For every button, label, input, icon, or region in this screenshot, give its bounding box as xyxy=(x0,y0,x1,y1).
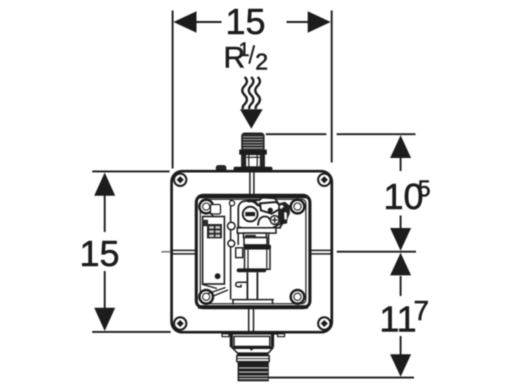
svg-text:7: 7 xyxy=(414,295,430,326)
svg-text:15: 15 xyxy=(225,1,265,42)
svg-text:15: 15 xyxy=(79,233,119,274)
svg-text:11: 11 xyxy=(379,299,416,340)
svg-text:2: 2 xyxy=(255,49,268,75)
svg-text:1: 1 xyxy=(239,39,250,61)
svg-text:5: 5 xyxy=(418,176,431,202)
